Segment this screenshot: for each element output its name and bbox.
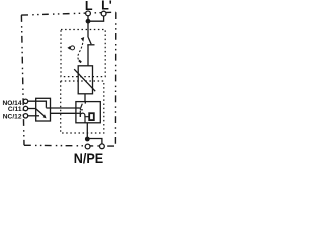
svg-text:L: L (85, 0, 93, 13)
svg-text:NC/12: NC/12 (3, 114, 22, 121)
svg-text:N/PE: N/PE (74, 150, 103, 165)
svg-text:L': L' (101, 0, 112, 13)
svg-text:C/11: C/11 (8, 106, 22, 113)
